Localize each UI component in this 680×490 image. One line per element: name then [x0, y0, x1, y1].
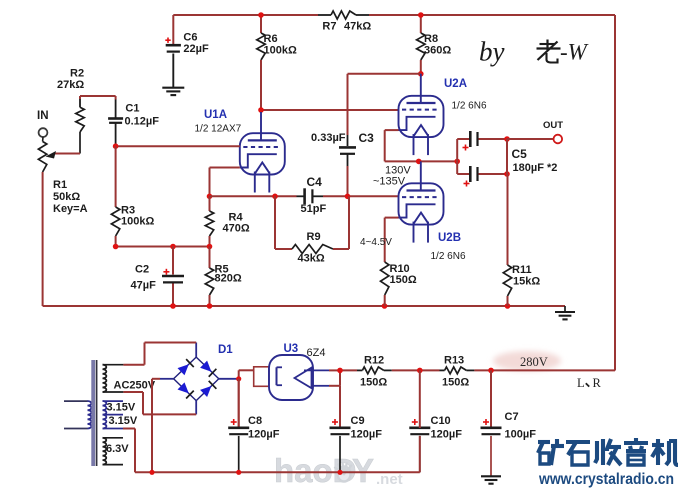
svg-text:C5: C5: [512, 147, 528, 161]
svg-text:180µF *2: 180µF *2: [513, 162, 558, 174]
svg-text:6Z4: 6Z4: [307, 347, 326, 359]
svg-text:100kΩ: 100kΩ: [121, 216, 154, 228]
svg-text:1/2 12AX7: 1/2 12AX7: [195, 124, 242, 135]
svg-text:3.15V: 3.15V: [107, 402, 136, 414]
svg-text:820Ω: 820Ω: [215, 273, 242, 285]
svg-text:120µF: 120µF: [248, 429, 280, 441]
svg-text:360Ω: 360Ω: [424, 45, 451, 57]
svg-text:C6: C6: [183, 32, 197, 44]
svg-text:47µF: 47µF: [131, 280, 157, 292]
svg-text:280V: 280V: [520, 355, 548, 369]
svg-text:15kΩ: 15kΩ: [513, 276, 540, 288]
svg-text:~135V: ~135V: [373, 176, 406, 188]
svg-text:D1: D1: [218, 344, 233, 356]
svg-text:0.33µF: 0.33µF: [311, 132, 346, 144]
svg-text:100µF: 100µF: [505, 429, 537, 441]
svg-text:R: R: [593, 376, 602, 390]
svg-text:1/2 6N6: 1/2 6N6: [431, 251, 466, 262]
svg-text:150Ω: 150Ω: [442, 377, 469, 389]
svg-text:1/2 6N6: 1/2 6N6: [452, 101, 487, 112]
svg-text:Y: Y: [352, 452, 374, 489]
svg-text:U2A: U2A: [444, 78, 467, 90]
svg-text:R1: R1: [53, 179, 67, 191]
svg-text:47kΩ: 47kΩ: [344, 21, 371, 33]
svg-text:6.3V: 6.3V: [106, 443, 129, 455]
svg-text:50kΩ: 50kΩ: [53, 191, 80, 203]
svg-text:120µF: 120µF: [431, 429, 463, 441]
svg-text:0.12µF: 0.12µF: [125, 116, 160, 128]
svg-text:C8: C8: [248, 415, 262, 427]
svg-text:22µF: 22µF: [183, 43, 209, 55]
svg-text:150Ω: 150Ω: [360, 377, 387, 389]
svg-text:4~4.5V: 4~4.5V: [360, 237, 392, 248]
svg-text:OUT: OUT: [543, 120, 563, 131]
svg-text:R9: R9: [307, 231, 321, 243]
svg-text:R11: R11: [512, 264, 532, 276]
svg-text:L: L: [577, 376, 585, 390]
svg-text:R2: R2: [70, 68, 84, 80]
svg-text:R6: R6: [264, 33, 278, 45]
svg-text:R7: R7: [322, 21, 336, 33]
svg-text:43kΩ: 43kΩ: [298, 253, 325, 265]
svg-text:U3: U3: [284, 343, 299, 355]
svg-text:C4: C4: [307, 175, 323, 189]
svg-text:150Ω: 150Ω: [390, 274, 417, 286]
svg-text:C1: C1: [125, 103, 139, 115]
svg-text:U2B: U2B: [438, 232, 461, 244]
svg-text:C2: C2: [135, 264, 149, 276]
svg-text:3.15V: 3.15V: [109, 415, 138, 427]
svg-text:C10: C10: [431, 415, 451, 427]
svg-text:AC250V: AC250V: [114, 380, 156, 392]
svg-text:R12: R12: [364, 355, 384, 367]
svg-text:by: by: [479, 37, 505, 67]
svg-text:Key=A: Key=A: [53, 203, 88, 215]
svg-text:120µF: 120µF: [351, 429, 383, 441]
svg-text:C3: C3: [359, 131, 375, 145]
svg-text:R8: R8: [424, 33, 438, 45]
svg-text:www.crystalradio.cn: www.crystalradio.cn: [538, 471, 674, 488]
svg-text:C7: C7: [505, 411, 519, 423]
svg-text:R13: R13: [444, 355, 464, 367]
svg-text:U1A: U1A: [204, 109, 227, 121]
svg-text:-W: -W: [560, 40, 589, 65]
svg-text:27kΩ: 27kΩ: [57, 79, 84, 91]
svg-text:100kΩ: 100kΩ: [264, 45, 297, 57]
svg-text:470Ω: 470Ω: [223, 223, 250, 235]
svg-text:.net: .net: [376, 471, 403, 488]
svg-text:C9: C9: [351, 415, 365, 427]
svg-text:51pF: 51pF: [301, 203, 327, 215]
svg-text:IN: IN: [37, 110, 49, 122]
